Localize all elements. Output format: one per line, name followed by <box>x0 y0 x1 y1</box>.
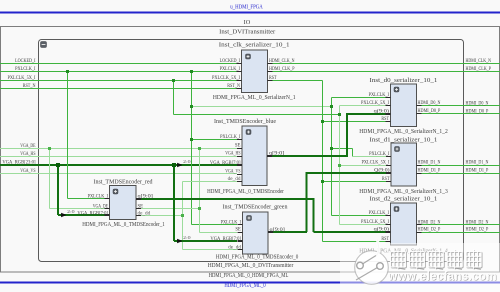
junction PXLCLK_5X_I at x173 <box>172 79 175 82</box>
wire HDMI_D1_N out <box>422 165 500 167</box>
svg-text:VGA_VS: VGA_VS <box>20 169 36 174</box>
wire HDMI_D2_N out <box>422 224 500 226</box>
instance Inst_d2_serializer_10_1 <box>391 203 417 245</box>
svg-text:q[9:0]: q[9:0] <box>269 152 285 157</box>
bus VGA_RGB drop to red encoder <box>57 165 59 215</box>
svg-text:RST_N: RST_N <box>23 84 36 89</box>
svg-text:PXLCLK_I: PXLCLK_I <box>369 152 390 157</box>
svg-text:HDMI_FPGA_ML_0_SerializerN_1: HDMI_FPGA_ML_0_SerializerN_1 <box>213 94 296 101</box>
wire PXLCLK_5X_I <box>0 80 237 82</box>
svg-text:HDMI_D0_P: HDMI_D0_P <box>466 110 489 115</box>
svg-text:Inst_clk_serializer_10_1: Inst_clk_serializer_10_1 <box>219 41 290 48</box>
svg-text:RST: RST <box>382 177 390 182</box>
svg-text:PXLCLK_I: PXLCLK_I <box>220 67 241 72</box>
wire PXLCLK_I vertical right <box>331 98 333 216</box>
wire HDMI_D1_P out <box>422 173 500 175</box>
svg-text:SE: SE <box>235 227 241 232</box>
svg-text:HDMI_FPGA_ML_0_TMDSEncoder_1: HDMI_FPGA_ML_0_TMDSEncoder_1 <box>82 221 165 228</box>
bus q[9:0] blue vertical <box>346 113 348 156</box>
pin blue encoder left <box>237 181 242 183</box>
wire LOCKED_I <box>0 63 237 65</box>
svg-text:LOCKED_I: LOCKED_I <box>220 59 241 64</box>
wire HDMI_D0_P out <box>422 113 500 115</box>
pin clk serializer right <box>268 80 273 82</box>
pin clk serializer left <box>237 71 242 73</box>
wire PXLCLK_I into red encoder <box>68 198 105 200</box>
wire RST into d1 <box>323 181 387 183</box>
junction RST d1 <box>321 180 324 183</box>
svg-text:HDMI_D2_P: HDMI_D2_P <box>466 228 489 233</box>
svg-text:PXLCLK_I: PXLCLK_I <box>220 135 241 140</box>
pin clk serializer left <box>237 63 242 65</box>
wire PXLCLK_5X_I into d2 <box>340 224 386 226</box>
pin d0 left bus <box>386 113 391 115</box>
svg-text:HDMI_FPGA_ML_0_SerializerN_1_3: HDMI_FPGA_ML_0_SerializerN_1_3 <box>359 188 448 195</box>
instance Inst_d0_serializer_10_1 <box>391 84 417 127</box>
svg-text:HDMI_FPGA_ML_0: HDMI_FPGA_ML_0 <box>224 282 265 289</box>
svg-text:PXLCLK_5X_I: PXLCLK_5X_I <box>361 101 389 106</box>
junction VGA_RGB at x58 <box>56 163 60 167</box>
icon Inst_d1_serializer_10_1 <box>395 147 400 152</box>
wire PXLCLK_I into d1 <box>353 156 387 158</box>
svg-text:de_dd: de_dd <box>228 245 241 250</box>
junction VGA_DE at x199 <box>198 147 201 150</box>
pin clk serializer right <box>268 71 273 73</box>
pin d2 left <box>386 215 391 217</box>
wire PXLCLK_I into blue encoder <box>192 139 238 141</box>
pin d1 right <box>417 165 422 167</box>
svg-text:VGA_RGB[7:0]: VGA_RGB[7:0] <box>77 211 108 216</box>
svg-text:VGA_HS: VGA_HS <box>20 152 36 157</box>
instance Inst_TMDSEncoder_red <box>110 186 137 220</box>
svg-text:RST: RST <box>381 237 389 242</box>
wire RST vertical <box>322 81 324 242</box>
svg-text:VGA_RGB[7:0]: VGA_RGB[7:0] <box>210 161 241 166</box>
pin green encoder right bus <box>268 231 273 233</box>
instance Inst_TMDSEncoder_green <box>243 212 269 254</box>
wire PXLCLK_5X_I vertical right <box>339 106 341 225</box>
bus q[9:0] green encoder out <box>269 231 308 233</box>
wire HDMI_D0_N out <box>422 105 500 107</box>
svg-text:q(9:0): q(9:0) <box>374 110 390 115</box>
wire PXLCLK_I run to serializers <box>192 106 332 108</box>
wire VGA_HS <box>0 156 237 158</box>
wire VGA_DE into red encoder <box>50 208 105 210</box>
svg-text:SE: SE <box>235 144 241 149</box>
svg-text:HDMI_D2_N: HDMI_D2_N <box>466 221 489 226</box>
wire HDMI_CLK_N out <box>273 63 500 65</box>
pin d2 right <box>417 224 422 226</box>
bus q[9:0] red encoder out <box>141 198 314 200</box>
wire PXLCLK_I drop to encoders <box>191 72 193 225</box>
pin green encoder left <box>238 224 243 226</box>
svg-text:LOCKED_I: LOCKED_I <box>15 59 36 64</box>
pin green encoder left <box>238 232 243 234</box>
svg-text:IO: IO <box>244 19 251 26</box>
arrow VGA_RGB blue encoder <box>177 163 182 168</box>
icon Inst_TMDSEncoder_red <box>113 189 118 194</box>
pin blue encoder left <box>237 139 242 141</box>
svg-text:VGA_DE: VGA_DE <box>20 144 35 149</box>
pin red encoder right <box>136 208 141 210</box>
wire PXLCLK_I <box>0 71 237 73</box>
svg-text:Inst_d0_serializer_10_1: Inst_d0_serializer_10_1 <box>370 77 438 84</box>
svg-text:PXLCLK_5X_I: PXLCLK_5X_I <box>8 76 36 81</box>
pin d1 right <box>417 173 422 175</box>
svg-text:PXLCLK_5X_I: PXLCLK_5X_I <box>212 76 240 81</box>
bus q[9:0] green vertical <box>306 172 308 232</box>
svg-text:VGA_RGB[23:0]: VGA_RGB[23:0] <box>2 161 35 166</box>
bus VGA_RGB into green encoder <box>174 240 237 242</box>
pin d2 right <box>417 232 422 234</box>
pin d1 left <box>386 181 391 183</box>
wire HDMI_D2_P out <box>422 232 500 234</box>
svg-text:HDMI_CLK_N: HDMI_CLK_N <box>269 59 295 64</box>
icon Inst_clk_serializer_10_1 <box>246 54 251 59</box>
bus q[9:0] into d1 <box>307 172 387 174</box>
arrow VGA_RGB red encoder <box>61 213 66 218</box>
wire RST into d0 <box>323 121 386 123</box>
svg-text:HDMI_CLK_P: HDMI_CLK_P <box>466 67 492 72</box>
bus VGA_RGB into red encoder <box>58 214 105 216</box>
svg-text:2:0: 2:0 <box>183 235 191 240</box>
wire DE drop to red encoder <box>49 149 51 209</box>
svg-text:HDMI_FPGA_ML_0_SerializerN_1_2: HDMI_FPGA_ML_0_SerializerN_1_2 <box>359 128 448 135</box>
svg-text:Inst_TMDSEncoder_blue: Inst_TMDSEncoder_blue <box>214 118 276 125</box>
svg-text:HDMI_CLK_P: HDMI_CLK_P <box>269 67 295 72</box>
svg-text:www.elecfans.com: www.elecfans.com <box>387 270 497 283</box>
svg-text:HDMI_D2_P: HDMI_D2_P <box>418 228 441 233</box>
pin red encoder left bus <box>105 214 110 216</box>
svg-text:HDMI_FPGA_ML_0_HDMI_FPGA_ML: HDMI_FPGA_ML_0_HDMI_FPGA_ML <box>209 272 289 279</box>
svg-text:Inst_d1_serializer_10_1: Inst_d1_serializer_10_1 <box>370 136 438 143</box>
pin blue encoder left <box>237 174 242 176</box>
svg-text:HDMI_D0_N: HDMI_D0_N <box>466 102 489 107</box>
svg-text:q[9:0]: q[9:0] <box>270 228 286 233</box>
svg-text:PXLCLK_5X_I: PXLCLK_5X_I <box>362 161 390 166</box>
svg-text:PXLCLK_I: PXLCLK_I <box>221 221 242 226</box>
svg-text:PXLCLK_5X_I: PXLCLK_5X_I <box>361 220 389 225</box>
svg-text:HDMI_CLK_N: HDMI_CLK_N <box>466 59 492 64</box>
wire PXLCLK_5X_I drop <box>173 81 175 115</box>
svg-text:HDMI_FPGA_ML_0_TMDSEncoder_0: HDMI_FPGA_ML_0_TMDSEncoder_0 <box>216 254 299 261</box>
junction DE at red encoder right <box>198 207 201 210</box>
wire VGA_DE <box>0 148 237 150</box>
wire DE from red encoder right <box>141 208 200 210</box>
pin green encoder left <box>238 249 243 251</box>
icon Inst_TMDSEncoder_blue <box>246 130 251 135</box>
instance Inst_TMDSEncoder_blue <box>242 126 267 186</box>
svg-text:Inst_TMDSEncoder_red: Inst_TMDSEncoder_red <box>94 179 154 186</box>
wire PXLCLK_I into d2 <box>332 215 386 217</box>
bus q[9:0] into d0 <box>347 113 386 115</box>
wire RST into d2 <box>323 241 386 243</box>
wire RST_N <box>0 88 237 90</box>
wire VGA_VS <box>0 173 237 175</box>
pin clk serializer left <box>237 88 242 90</box>
svg-text:HDMI_D0_P: HDMI_D0_P <box>418 109 441 114</box>
pin blue encoder left <box>237 148 242 150</box>
wire c0_c1 into green encoder <box>183 249 238 251</box>
bus q[9:0] into d2 <box>314 231 386 233</box>
svg-text:HDMI_D1_P: HDMI_D1_P <box>418 169 441 174</box>
collapse icon Inst_DVITransmitter <box>41 42 47 48</box>
pin clk serializer right <box>268 63 273 65</box>
pin blue encoder left <box>237 156 242 158</box>
junction PXLCLK_5X_I turn <box>338 113 341 116</box>
wire c0_c1 into blue encoder <box>183 181 238 183</box>
pin d1 left bus <box>386 172 391 174</box>
svg-text:2:0: 2:0 <box>67 209 75 214</box>
junction RST d0 <box>321 120 324 123</box>
svg-text:HDMI_D1_N: HDMI_D1_N <box>418 161 441 166</box>
instance Inst_clk_serializer_10_1 <box>242 50 268 93</box>
pin d2 left bus <box>386 231 391 233</box>
svg-text:HDMI_FPGA_ML_0_DVITransmitter: HDMI_FPGA_ML_0_DVITransmitter <box>208 262 294 269</box>
junction PXLCLK_I at x67 <box>66 70 69 73</box>
svg-text:u_HDMI_FPGA: u_HDMI_FPGA <box>230 4 263 11</box>
icon Inst_TMDSEncoder_green <box>247 216 252 221</box>
svg-text:RST: RST <box>269 76 277 81</box>
svg-text:VGA_VS: VGA_VS <box>225 170 241 175</box>
svg-text:de_dd: de_dd <box>228 177 241 182</box>
watermark elecfans logo and text <box>340 240 500 292</box>
bus q[9:0] red vertical <box>313 198 315 232</box>
wire PXLCLK_5X_I into d0 <box>340 105 386 107</box>
module u_HDMI_FPGA top border (blue) <box>0 12 500 14</box>
svg-text:Inst_DVITransmitter: Inst_DVITransmitter <box>219 29 276 36</box>
junction VGA_RGB at x174 <box>172 163 176 167</box>
pin d2 left <box>386 241 391 243</box>
svg-text:PXLCLK_I: PXLCLK_I <box>369 93 390 98</box>
svg-text:VGA_HS: VGA_HS <box>225 152 241 157</box>
pin d1 left <box>386 156 391 158</box>
pin red encoder right bus <box>136 198 141 200</box>
wire RST out of clk serializer <box>273 80 323 82</box>
wire c0_c1 vertical <box>182 182 184 250</box>
junction PXLCLK_I at d1 jog <box>330 147 333 150</box>
svg-text:Q(9:0): Q(9:0) <box>374 169 390 174</box>
svg-text:HDMI_FPGA_ML_0_TMDSEncoder: HDMI_FPGA_ML_0_TMDSEncoder <box>207 188 284 195</box>
bus VGA_RGB drop to green encoder <box>173 165 175 241</box>
wire PXLCLK_5X_I into d1 <box>340 165 387 167</box>
icon Inst_d2_serializer_10_1 <box>394 207 399 212</box>
svg-text:PXLCLK_I: PXLCLK_I <box>15 67 36 72</box>
junction PXLCLK_5X_I d1 <box>338 164 341 167</box>
junction PXLCLK_I at blue encoder <box>190 138 193 141</box>
pin d0 left <box>386 105 391 107</box>
wire PXLCLK_I into green encoder <box>192 224 238 226</box>
wire PXLCLK_5X_I run right <box>174 114 340 116</box>
wire DE into green encoder <box>200 232 238 234</box>
svg-text:2:0: 2:0 <box>183 159 191 164</box>
svg-text:VGA_DE: VGA_DE <box>93 205 108 210</box>
arrow VGA_RGB green encoder <box>177 239 182 244</box>
wire PXLCLK_I jog to d1 <box>332 148 353 150</box>
svg-text:Inst_TMDSEncoder_green: Inst_TMDSEncoder_green <box>223 204 289 211</box>
wire PXLCLK_I into d0 <box>332 97 386 99</box>
svg-text:HDMI_D1_N: HDMI_D1_N <box>466 161 489 166</box>
svg-text:q(9:0): q(9:0) <box>374 228 390 233</box>
svg-text:SE: SE <box>138 205 144 210</box>
pin d0 left <box>386 121 391 123</box>
junction PXLCLK_I at x191 <box>190 70 193 73</box>
wire DE drop to green encoder <box>199 149 201 233</box>
junction c0_c1 at red encoder <box>181 214 184 217</box>
svg-text:Inst_d2_serializer_10_1: Inst_d2_serializer_10_1 <box>370 196 438 203</box>
wire PXLCLK_I jog down <box>352 149 354 157</box>
icon Inst_d0_serializer_10_1 <box>394 87 399 92</box>
pin d2 left <box>386 224 391 226</box>
svg-text:PXLCLK_I: PXLCLK_I <box>369 211 390 216</box>
svg-text:RST_N: RST_N <box>227 84 240 89</box>
bus q[9:0] blue encoder out <box>268 155 348 157</box>
junction PXLCLK_I at x191 y106 <box>190 105 193 108</box>
pin blue encoder left bus <box>237 164 242 166</box>
wire PXLCLK_I drop to red encoder <box>67 72 69 199</box>
block Inst_DVITransmitter boundary <box>39 40 464 262</box>
bus VGA_RGB[23:0] <box>0 164 237 166</box>
pin red encoder left <box>105 208 110 210</box>
pin red encoder left <box>105 198 110 200</box>
module u_HDMI_FPGA bottom border (blue) <box>0 282 500 284</box>
pin d1 left <box>386 165 391 167</box>
pin red encoder right <box>136 215 141 217</box>
svg-text:de_dd: de_dd <box>138 212 151 217</box>
instance Inst_d1_serializer_10_1 <box>391 143 417 186</box>
wire HDMI_CLK_P out <box>273 71 500 73</box>
svg-text:HDMI_D1_P: HDMI_D1_P <box>466 169 489 174</box>
svg-text:HDMI_D0_N: HDMI_D0_N <box>418 101 441 106</box>
pin d0 right <box>417 105 422 107</box>
pin blue encoder right bus <box>267 155 272 157</box>
pin d0 right <box>417 113 422 115</box>
svg-text:HDMI_D2_N: HDMI_D2_N <box>418 221 441 226</box>
svg-text:VGA_RGB[7:0]: VGA_RGB[7:0] <box>210 237 241 242</box>
junction PXLCLK_I right column <box>330 105 333 108</box>
svg-text:RST: RST <box>381 117 389 122</box>
svg-text:q[9:0]: q[9:0] <box>138 195 154 200</box>
pin d0 left <box>386 97 391 99</box>
svg-text:PXLCLK_I: PXLCLK_I <box>88 195 109 200</box>
junction VGA_DE at x49 <box>48 147 51 150</box>
wire c0_c1 from red encoder right <box>141 215 183 217</box>
pin green encoder left bus <box>238 240 243 242</box>
pin clk serializer left <box>237 80 242 82</box>
